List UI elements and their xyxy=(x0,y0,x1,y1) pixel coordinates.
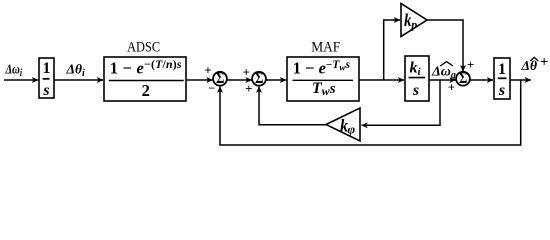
node output Δθ̂^+ label xyxy=(521,54,549,73)
summer 3 (Σ) xyxy=(456,70,470,87)
svg-text:+: + xyxy=(540,54,549,70)
svg-text:s: s xyxy=(412,82,419,99)
block integrator 1/s (output) xyxy=(494,58,510,99)
wire kφ output to summer 2 (plus) xyxy=(259,87,326,125)
wire branch up to kp amplifier xyxy=(384,20,400,80)
svg-text:MAF: MAF xyxy=(311,40,340,56)
svg-text:+: + xyxy=(204,62,211,77)
node Δθ_i label xyxy=(66,62,85,80)
wire MAF to ki/s block xyxy=(359,79,404,81)
svg-text:2: 2 xyxy=(142,81,150,100)
wire summer 2 to MAF xyxy=(266,79,286,81)
node Δω̂_g label xyxy=(431,62,456,81)
wire outer feedback (output to summer 1, minus) xyxy=(220,80,521,145)
svg-text:s: s xyxy=(42,82,49,99)
summer 1 (Σ) xyxy=(213,70,227,87)
block ADSC transfer function xyxy=(104,40,186,102)
svg-text:+: + xyxy=(242,65,249,80)
svg-text:+: + xyxy=(467,57,474,72)
svg-text:+: + xyxy=(448,79,455,94)
svg-text:Σ: Σ xyxy=(216,70,224,87)
wire ki/s to summer 3 xyxy=(429,79,456,81)
svg-text:s: s xyxy=(498,82,505,99)
svg-text:Δωi: Δωi xyxy=(5,61,23,78)
svg-text:−: − xyxy=(208,81,215,95)
svg-text:φ: φ xyxy=(348,121,356,136)
svg-text:+: + xyxy=(245,81,252,96)
block MAF transfer function xyxy=(287,40,359,102)
amplifier kφ (triangle) xyxy=(326,108,360,141)
svg-text:ADSC: ADSC xyxy=(127,40,160,56)
wire output arrow xyxy=(510,79,531,81)
amplifier kp (triangle) xyxy=(401,4,427,37)
svg-text:p: p xyxy=(410,18,417,32)
wire input to integrator xyxy=(4,79,38,81)
svg-text:Δθ: Δθ xyxy=(521,58,537,73)
wire summer 3 to output integrator xyxy=(470,79,493,81)
wire integrator to ADSC xyxy=(55,79,104,81)
sign + at summer 2 left input xyxy=(242,65,249,80)
wire kp output to summer 3 xyxy=(427,20,463,71)
sign + at summer 2 bottom input xyxy=(245,81,252,96)
wire ADSC to summer 1 xyxy=(186,79,213,81)
sign − at summer 1 bottom input xyxy=(208,81,215,95)
sign + at summer 3 left input xyxy=(448,79,455,94)
svg-text:Σ: Σ xyxy=(459,70,467,87)
summer 2 (Σ) xyxy=(252,70,266,87)
block integrator 1/s (input) xyxy=(39,58,54,99)
svg-text:1: 1 xyxy=(498,61,506,78)
node input Δω_i label xyxy=(5,61,23,78)
block integrator ki/s xyxy=(405,56,429,101)
wire summer 1 to summer 2 xyxy=(227,79,252,81)
svg-text:Σ: Σ xyxy=(255,70,263,87)
sign + at summer 1 left input xyxy=(204,62,211,77)
wire branch down to kφ amplifier xyxy=(362,80,440,125)
sign + at summer 3 top input xyxy=(467,57,474,72)
svg-text:1: 1 xyxy=(43,60,51,77)
